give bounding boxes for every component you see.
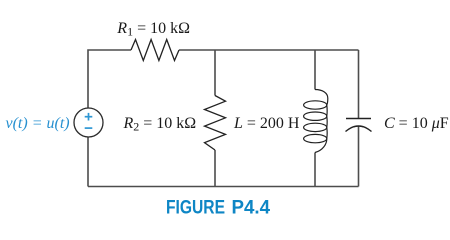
wire R2 bottom lead: [214, 150, 216, 187]
wire L top lead: [314, 50, 316, 90]
wire C top lead: [358, 50, 360, 118]
resistor R1: [131, 40, 179, 61]
source minus sign: [85, 127, 93, 129]
svg-text:v(t) = u(t): v(t) = u(t): [6, 115, 70, 132]
wire L bottom lead: [314, 153, 316, 187]
wire R2 top lead: [214, 50, 216, 96]
resistor R2: [205, 96, 226, 151]
wire bottom segment: [88, 186, 359, 188]
wire top segment (R1 to top-right corner): [179, 49, 359, 51]
svg-text:L = 200 H: L = 200 H: [233, 115, 300, 132]
wire C bottom lead: [358, 127, 360, 187]
wire top-left segment (left corner to R1): [88, 50, 131, 108]
voltage source circle: [74, 108, 103, 137]
svg-text:C = 10 μF: C = 10 μF: [384, 115, 449, 132]
source plus sign: [85, 113, 93, 121]
capacitor C bottom curved plate: [346, 126, 372, 132]
inductor L coil: [304, 90, 328, 153]
wire left-bottom segment: [87, 137, 89, 187]
svg-text:FIGURE: FIGURE: [166, 197, 225, 219]
svg-text:P4.4: P4.4: [232, 197, 271, 219]
capacitor C top plate: [346, 118, 371, 120]
